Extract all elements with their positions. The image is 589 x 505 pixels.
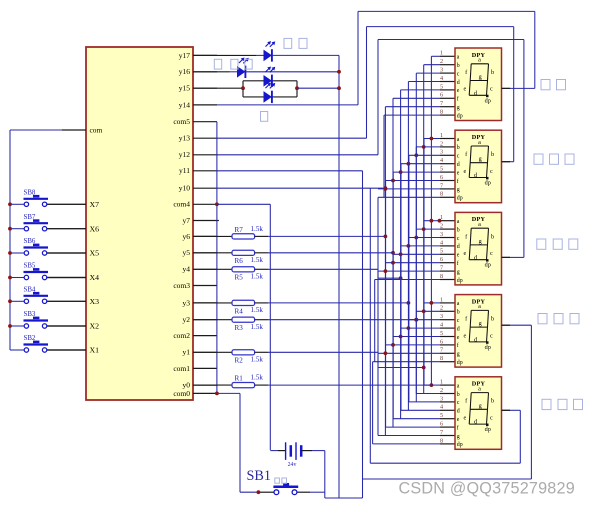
svg-text:e: e — [463, 168, 466, 175]
svg-text:b: b — [491, 69, 494, 76]
svg-text:3: 3 — [440, 395, 443, 402]
svg-text:R1: R1 — [235, 375, 244, 383]
svg-text:2: 2 — [440, 387, 443, 394]
svg-text:SB3: SB3 — [24, 311, 36, 318]
svg-text:a: a — [478, 303, 481, 310]
svg-text:a: a — [457, 137, 460, 143]
svg-text:SB6: SB6 — [24, 238, 36, 245]
svg-text:g: g — [479, 156, 482, 163]
svg-text:y5: y5 — [183, 248, 191, 257]
svg-text:1.5k: 1.5k — [251, 374, 264, 382]
svg-text:b: b — [457, 63, 460, 69]
svg-text:4: 4 — [440, 404, 443, 411]
svg-text:1: 1 — [440, 379, 443, 386]
svg-text:e: e — [463, 332, 466, 339]
svg-text:SB1: SB1 — [247, 468, 271, 484]
svg-text:dp: dp — [485, 180, 491, 187]
svg-text:y3: y3 — [183, 298, 191, 307]
svg-text:5: 5 — [440, 330, 443, 337]
svg-text:a: a — [457, 55, 460, 61]
svg-text:8: 8 — [440, 355, 443, 362]
svg-text:7: 7 — [440, 429, 443, 436]
svg-text:X6: X6 — [90, 224, 100, 233]
svg-text:com: com — [90, 126, 103, 135]
svg-text:a: a — [457, 219, 460, 225]
svg-text:dp: dp — [457, 113, 463, 119]
svg-text:7: 7 — [440, 265, 443, 272]
svg-text:dp: dp — [457, 360, 463, 366]
svg-text:1: 1 — [440, 296, 443, 303]
svg-text:e: e — [457, 335, 460, 341]
svg-text:c: c — [490, 168, 493, 175]
svg-text:d: d — [457, 409, 460, 415]
svg-text:com5: com5 — [173, 117, 190, 126]
svg-text:dp: dp — [485, 344, 491, 351]
svg-text:R6: R6 — [235, 257, 244, 265]
svg-text:g: g — [479, 74, 482, 81]
svg-text:b: b — [491, 233, 494, 240]
svg-text:8: 8 — [440, 437, 443, 444]
svg-text:3: 3 — [440, 149, 443, 156]
svg-text:e: e — [457, 253, 460, 259]
svg-text:e: e — [463, 86, 466, 93]
svg-text:b: b — [491, 398, 494, 405]
svg-text:SB5: SB5 — [24, 263, 36, 270]
svg-text:b: b — [491, 316, 494, 323]
svg-text:8: 8 — [440, 109, 443, 116]
svg-text:g: g — [479, 238, 482, 245]
svg-text:a: a — [478, 139, 481, 146]
svg-text:g: g — [479, 320, 482, 327]
svg-text:y4: y4 — [183, 265, 191, 274]
svg-text:f: f — [457, 178, 459, 185]
svg-text:R3: R3 — [235, 324, 244, 332]
svg-text:c: c — [490, 86, 493, 93]
svg-text:d: d — [457, 244, 460, 250]
svg-text:g: g — [457, 187, 460, 193]
svg-text:dp: dp — [485, 426, 491, 433]
svg-text:c: c — [457, 236, 460, 242]
svg-text:4: 4 — [440, 75, 443, 82]
svg-text:6: 6 — [440, 174, 443, 181]
svg-text:y15: y15 — [179, 84, 191, 93]
svg-text:f: f — [457, 342, 459, 349]
svg-text:R7: R7 — [235, 226, 244, 234]
svg-text:SB8: SB8 — [24, 190, 36, 197]
svg-text:y1: y1 — [183, 348, 191, 357]
svg-text:b: b — [457, 392, 460, 398]
svg-text:y10: y10 — [179, 184, 191, 193]
svg-text:SB7: SB7 — [24, 214, 36, 221]
svg-text:b: b — [457, 145, 460, 151]
svg-text:y14: y14 — [179, 100, 191, 109]
svg-text:4: 4 — [440, 239, 443, 246]
svg-text:1.5k: 1.5k — [251, 356, 264, 364]
svg-text:R5: R5 — [235, 274, 244, 282]
svg-text:e: e — [463, 415, 466, 422]
svg-text:5: 5 — [440, 412, 443, 419]
svg-text:1.5k: 1.5k — [251, 306, 264, 314]
svg-text:g: g — [457, 352, 460, 358]
svg-text:com0: com0 — [173, 389, 190, 398]
svg-text:1.5k: 1.5k — [251, 256, 264, 264]
svg-text:2: 2 — [440, 305, 443, 312]
svg-text:3: 3 — [440, 231, 443, 238]
svg-text:dp: dp — [457, 442, 463, 448]
svg-text:7: 7 — [440, 100, 443, 107]
svg-text:8: 8 — [440, 273, 443, 280]
svg-text:dp: dp — [457, 278, 463, 284]
svg-text:y13: y13 — [179, 134, 191, 143]
svg-text:e: e — [457, 88, 460, 94]
svg-text:3: 3 — [440, 67, 443, 74]
svg-text:X5: X5 — [90, 249, 100, 258]
svg-text:24v: 24v — [288, 462, 297, 468]
svg-text:com3: com3 — [173, 281, 190, 290]
svg-text:2: 2 — [440, 140, 443, 147]
svg-text:e: e — [457, 170, 460, 176]
svg-text:y11: y11 — [179, 166, 190, 175]
svg-text:c: c — [457, 400, 460, 406]
svg-text:com2: com2 — [173, 331, 190, 340]
svg-text:y12: y12 — [179, 150, 191, 159]
svg-text:e: e — [463, 250, 466, 257]
svg-text:a: a — [478, 221, 481, 228]
svg-text:SB4: SB4 — [24, 287, 36, 294]
svg-text:7: 7 — [440, 182, 443, 189]
svg-text:R4: R4 — [235, 307, 244, 315]
svg-text:e: e — [457, 417, 460, 423]
svg-text:d: d — [457, 162, 460, 168]
svg-text:a: a — [478, 385, 481, 392]
svg-text:c: c — [457, 318, 460, 324]
svg-text:b: b — [491, 151, 494, 158]
svg-text:a: a — [478, 57, 481, 64]
svg-text:X2: X2 — [90, 322, 100, 331]
svg-text:y16: y16 — [179, 67, 191, 76]
svg-text:a: a — [457, 383, 460, 389]
svg-text:2: 2 — [440, 223, 443, 230]
svg-text:d: d — [457, 326, 460, 332]
svg-text:g: g — [457, 105, 460, 111]
svg-text:com1: com1 — [173, 364, 190, 373]
svg-text:g: g — [457, 434, 460, 440]
svg-text:X1: X1 — [90, 346, 100, 355]
svg-text:g: g — [479, 402, 482, 409]
svg-text:8: 8 — [440, 191, 443, 198]
svg-text:b: b — [457, 310, 460, 316]
svg-text:3: 3 — [440, 313, 443, 320]
svg-text:6: 6 — [440, 338, 443, 345]
svg-text:X3: X3 — [90, 297, 100, 306]
svg-text:c: c — [457, 71, 460, 77]
svg-text:X4: X4 — [90, 273, 100, 282]
svg-text:CSDN @QQ375279829: CSDN @QQ375279829 — [399, 480, 575, 498]
svg-text:dp: dp — [485, 97, 491, 104]
svg-text:g: g — [457, 269, 460, 275]
svg-text:f: f — [457, 260, 459, 267]
svg-text:c: c — [490, 332, 493, 339]
svg-text:dp: dp — [485, 262, 491, 269]
svg-text:y17: y17 — [179, 51, 191, 60]
svg-text:y7: y7 — [183, 216, 191, 225]
svg-text:5: 5 — [440, 248, 443, 255]
svg-text:f: f — [457, 96, 459, 103]
svg-text:4: 4 — [440, 322, 443, 329]
svg-text:dp: dp — [457, 196, 463, 202]
svg-text:X7: X7 — [90, 200, 100, 209]
svg-text:1.5k: 1.5k — [251, 323, 264, 331]
svg-text:1: 1 — [440, 132, 443, 139]
svg-text:c: c — [490, 415, 493, 422]
svg-text:y6: y6 — [183, 232, 191, 241]
svg-text:a: a — [457, 301, 460, 307]
svg-text:b: b — [457, 227, 460, 233]
svg-text:f: f — [457, 424, 459, 431]
svg-text:R2: R2 — [235, 357, 244, 365]
svg-text:c: c — [490, 250, 493, 257]
svg-text:1.5k: 1.5k — [251, 273, 264, 281]
svg-text:1: 1 — [440, 50, 443, 57]
svg-text:7: 7 — [440, 347, 443, 354]
svg-text:1.5k: 1.5k — [251, 225, 264, 233]
svg-text:5: 5 — [440, 83, 443, 90]
svg-text:2: 2 — [440, 58, 443, 65]
svg-text:d: d — [457, 80, 460, 86]
svg-text:5: 5 — [440, 166, 443, 173]
svg-text:com4: com4 — [173, 200, 190, 209]
svg-text:6: 6 — [440, 256, 443, 263]
svg-text:6: 6 — [440, 421, 443, 428]
svg-text:4: 4 — [440, 157, 443, 164]
svg-text:c: c — [457, 154, 460, 160]
svg-text:y2: y2 — [183, 315, 191, 324]
svg-text:SB2: SB2 — [24, 335, 36, 342]
svg-text:6: 6 — [440, 92, 443, 99]
